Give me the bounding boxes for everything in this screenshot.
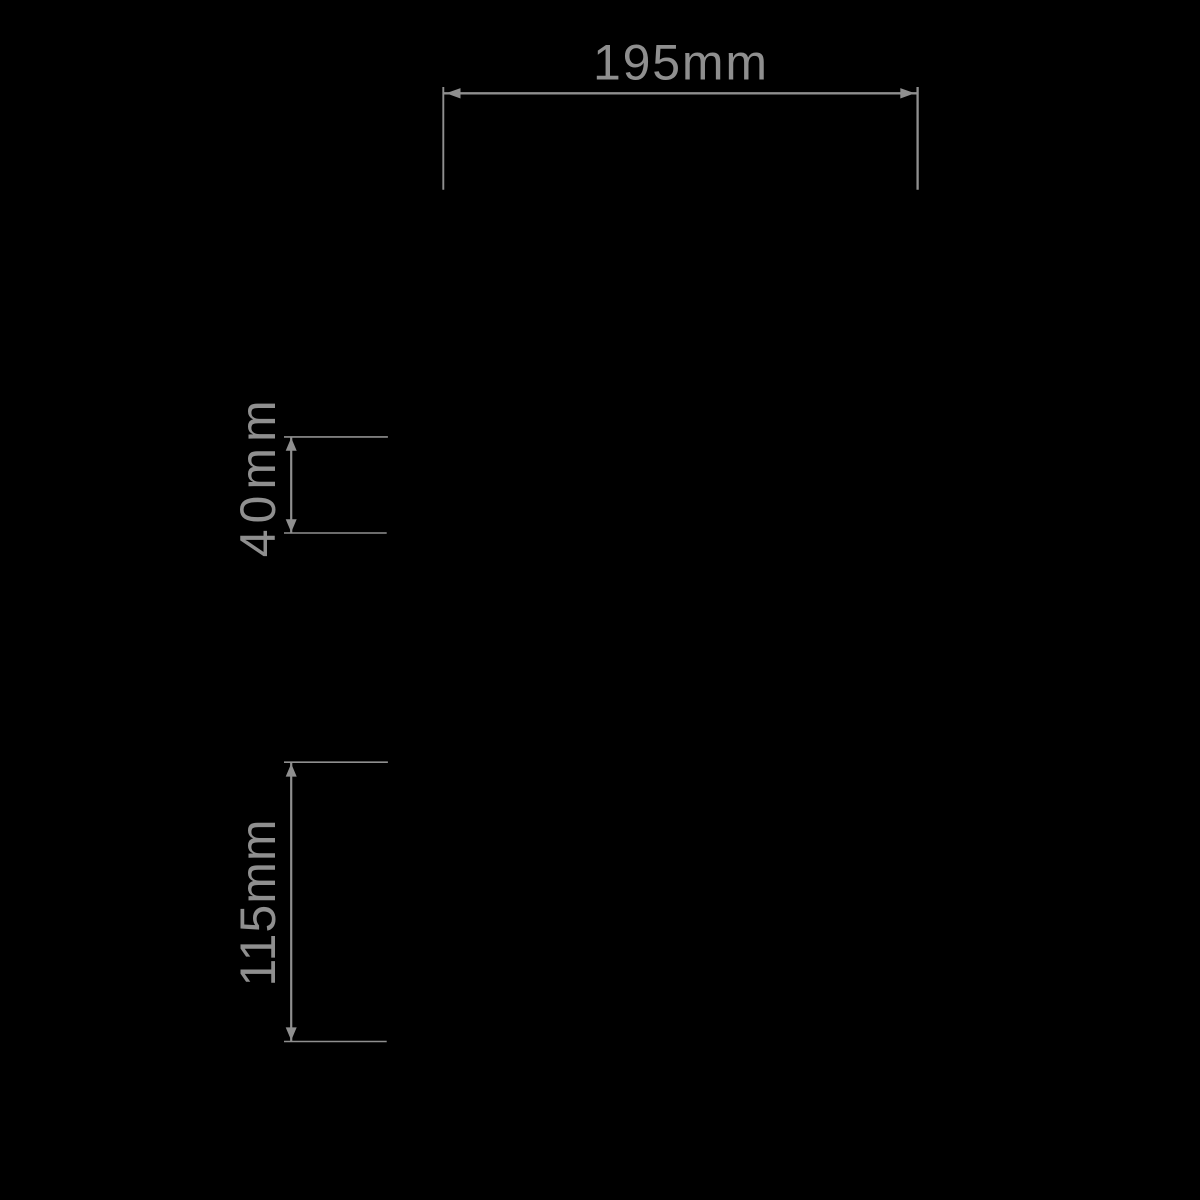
svg-text:115mm: 115mm [230,820,286,987]
arrowhead right (195mm) [900,88,915,98]
arrowhead up (115mm) [286,764,297,777]
extension line left (195mm) [442,87,444,190]
extension line top (115mm) [284,761,388,763]
svg-text:40mm: 40mm [230,400,286,557]
dimension line 195mm [443,92,917,94]
dimension line 40mm [290,438,292,533]
extension line right (195mm) [916,87,918,190]
arrowhead up (40mm) [286,438,297,451]
extension line top (40mm) [284,436,388,438]
arrowhead left (195mm) [446,88,461,98]
dimension line 115mm [290,763,292,1041]
svg-text:195mm: 195mm [593,34,767,90]
extension line bottom (115mm) [284,1041,387,1043]
extension line bottom (40mm) [284,532,387,534]
arrowhead down (115mm) [286,1027,297,1040]
arrowhead down (40mm) [286,519,297,532]
